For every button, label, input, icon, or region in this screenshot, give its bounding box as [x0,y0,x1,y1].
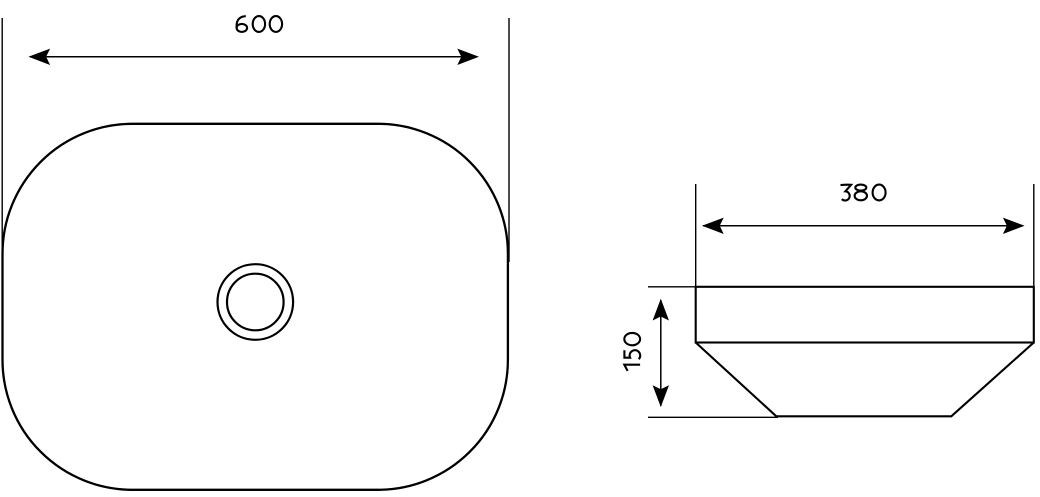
380 dim: label text "380" [841,185,886,201]
150 dim: dimension line [660,300,662,406]
600 dim: dimension line [30,56,477,58]
600 dim: left arrowhead [28,49,50,65]
600 dim: left extension line [1,18,3,272]
drain inner circle [227,274,284,331]
380 dim: left arrowhead [702,218,724,234]
380 dim: dimension line [703,225,1023,227]
380 dim: right arrowhead [1003,218,1025,234]
150 dim: label text "150" (rotated) [624,333,640,371]
600 dim: label text "600" [237,16,283,32]
side-view rim rectangle [696,287,1034,343]
150 dim: top extension line [648,286,696,288]
side-view bowl trapezoid [696,343,1034,417]
380 dim: left extension line [695,184,697,287]
380 dim: right extension line [1033,184,1035,287]
150 dim: top arrowhead [653,299,669,321]
600 dim: right arrowhead [457,49,479,65]
600 dim: right extension line [508,18,510,262]
150 dim: bottom arrowhead [653,385,669,407]
drain outer circle [218,264,294,340]
basin top-view outline [3,124,508,490]
150 dim: bottom extension line [648,416,778,418]
